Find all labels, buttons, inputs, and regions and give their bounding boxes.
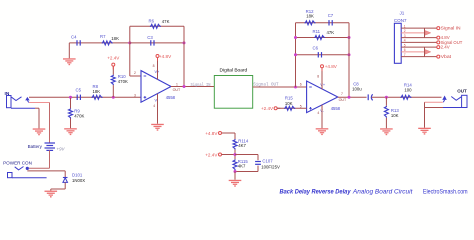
node op-amp1 output junction: [183, 85, 186, 88]
capacitor C6: [317, 52, 319, 57]
port Vbat: [437, 55, 440, 58]
wire input row: [29, 96, 141, 98]
ground input jack: [33, 128, 46, 135]
svg-text:R7: R7: [100, 34, 106, 39]
wire op-amp1 V- stub: [157, 94, 159, 124]
svg-text:1: 1: [176, 82, 178, 86]
op-amp U1B 4558: [307, 81, 341, 113]
svg-text:R6: R6: [149, 18, 155, 23]
wire C107 branch: [235, 154, 258, 156]
svg-text:2.4V: 2.4V: [441, 45, 450, 50]
ground R13: [380, 128, 393, 135]
resistor R12: [305, 21, 316, 25]
svg-text:+2.4V: +2.4V: [107, 56, 120, 61]
wire feedback right vertical: [183, 26, 185, 86]
wire op-amp2 output row: [338, 96, 367, 98]
connector J1 CON7: [394, 23, 401, 63]
svg-text:Back Delay Reverse Delay: Back Delay Reverse Delay: [280, 188, 351, 195]
svg-text:Signal OUT: Signal OUT: [253, 81, 279, 87]
wire input jack sleeve to ground: [35, 107, 39, 109]
ground power: [45, 191, 58, 198]
wire D101 to ground: [64, 182, 66, 189]
svg-text:C107: C107: [262, 159, 273, 164]
svg-text:4: 4: [153, 104, 155, 108]
wire J1 pin 1: [401, 27, 437, 29]
wire J1 pin 6: [401, 51, 424, 53]
wire feedback2 right vertical: [348, 23, 350, 98]
node feedback right junction: [183, 41, 186, 44]
node bias junction: [234, 153, 237, 156]
svg-text:1N00X: 1N00X: [72, 178, 85, 183]
svg-text:3: 3: [134, 93, 136, 97]
svg-text:D101: D101: [72, 172, 83, 177]
node op-amp2 input junction: [294, 86, 297, 89]
capacitor C4: [76, 40, 78, 45]
resistor R15: [284, 106, 295, 110]
wire op-amp1 inverting input: [130, 75, 141, 77]
wire R12-C7 row: [296, 22, 350, 24]
svg-text:Digital Board: Digital Board: [220, 68, 248, 74]
svg-text:+4.8V: +4.8V: [159, 54, 172, 59]
svg-text:R11: R11: [313, 29, 321, 34]
wire feedback left vertical: [129, 26, 131, 76]
resistor R10: [111, 75, 115, 86]
resistor R7: [102, 41, 113, 45]
svg-text:C3: C3: [147, 35, 153, 40]
resistor R9: [69, 108, 73, 118]
svg-text:Battery: Battery: [28, 144, 43, 149]
wire output jack ring: [425, 101, 443, 103]
port Signal OUT: [437, 41, 440, 44]
svg-text:+4.8V: +4.8V: [205, 131, 218, 136]
svg-text:47K: 47K: [327, 30, 335, 35]
resistor R11: [314, 36, 325, 40]
wire J1 pin 4: [401, 41, 437, 43]
wire op-amp2 V+ stub: [321, 68, 323, 89]
svg-text:+9V: +9V: [57, 146, 66, 151]
port Signal IN: [437, 27, 440, 30]
svg-text:4K7: 4K7: [238, 143, 246, 148]
wire output jack sleeve: [425, 107, 444, 109]
svg-text:18K: 18K: [306, 14, 314, 19]
svg-text:C4: C4: [71, 34, 77, 39]
ground C4: [63, 58, 76, 65]
wire J1 pin 7: [401, 56, 437, 58]
node C5-R9 junction: [69, 96, 72, 99]
svg-text:470K: 470K: [74, 113, 84, 118]
svg-text:CON7: CON7: [394, 18, 407, 23]
supply +4.8V op-amp2: [321, 68, 323, 71]
svg-text:10K: 10K: [391, 113, 399, 118]
node R13 junction: [385, 96, 388, 99]
node bias bottom junction: [234, 170, 237, 173]
supply +4.8V bias: [222, 132, 225, 134]
capacitor C8: [368, 94, 372, 100]
node feedback left junction: [128, 41, 131, 44]
resistor R6: [150, 24, 161, 28]
node C6 left: [294, 53, 297, 56]
power connector jack: [8, 167, 47, 178]
resistor R13: [384, 106, 388, 118]
battery BT1: [45, 143, 56, 150]
svg-text:8: 8: [153, 64, 155, 68]
wire bias bottom rail: [234, 170, 236, 171]
resistor R14: [400, 95, 411, 99]
svg-text:18K: 18K: [111, 36, 119, 41]
svg-text:+2.4V: +2.4V: [205, 152, 218, 157]
svg-text:100u: 100u: [352, 86, 362, 91]
svg-text:C6: C6: [313, 45, 319, 50]
wire C8 to R14: [372, 96, 442, 98]
wire C4-R7 row: [69, 42, 130, 44]
ground op-amp2: [316, 128, 329, 135]
svg-text:+2.4V: +2.4V: [261, 106, 274, 111]
ground output jack: [418, 128, 431, 135]
wire digital board output: [253, 86, 307, 88]
node R11 right: [348, 36, 351, 39]
svg-text:V+: V+: [320, 83, 326, 87]
svg-text:Signal IN: Signal IN: [191, 82, 211, 88]
resistor R115: [233, 159, 237, 170]
wire bias ground stub: [234, 172, 236, 180]
svg-text:100F/25V: 100F/25V: [261, 165, 280, 170]
supply +2.4V at R10: [112, 66, 114, 69]
svg-text:4558: 4558: [331, 106, 341, 111]
wire R15 row: [277, 107, 307, 109]
svg-text:+4.8V: +4.8V: [325, 64, 338, 69]
svg-text:10K: 10K: [285, 101, 293, 106]
input jack J_IN: [7, 96, 36, 109]
wire op-amp1 V+ stub: [157, 58, 159, 80]
wire J1 pin 3: [401, 37, 437, 39]
wire C4 to ground: [68, 43, 70, 58]
node op-amp2 output junction: [348, 96, 351, 99]
svg-text:100: 100: [404, 87, 412, 92]
svg-text:4558: 4558: [166, 95, 176, 100]
gnd arrow pin 2: [424, 28, 426, 38]
digital board block: [214, 76, 252, 109]
svg-text:47K: 47K: [162, 19, 170, 24]
svg-text:7: 7: [341, 92, 343, 96]
supply +4.8V op-amp1: [157, 58, 159, 61]
ground op-amp1: [151, 124, 164, 131]
capacitor C7: [328, 20, 330, 25]
svg-text:POWER CON: POWER CON: [3, 161, 32, 166]
wire op-amp1 output: [171, 86, 214, 88]
svg-text:4: 4: [317, 111, 319, 115]
svg-text:4K7: 4K7: [238, 164, 246, 169]
svg-text:5: 5: [300, 104, 302, 108]
ground R9: [64, 128, 77, 135]
wire power ring to D101: [27, 170, 65, 172]
svg-text:6: 6: [300, 82, 302, 86]
wire feedback2 left vertical: [295, 23, 297, 87]
wire op-amp2 V- stub: [321, 105, 323, 129]
gnd arrow pin 6: [424, 47, 426, 57]
ground bias: [229, 180, 242, 187]
capacitor C107: [255, 161, 261, 163]
svg-text:2: 2: [134, 71, 136, 75]
wire R6 row: [130, 25, 184, 27]
svg-text:C5: C5: [76, 87, 82, 92]
wire battery to power jack: [49, 150, 51, 168]
svg-text:ElectroSmash.com: ElectroSmash.com: [423, 188, 468, 195]
op-amp U1A 4558: [141, 70, 176, 102]
svg-text:Analog Board Circuit: Analog Board Circuit: [352, 188, 414, 195]
port 4.8V: [437, 36, 440, 39]
diode D101: [63, 178, 68, 183]
output jack J_OUT: [442, 95, 467, 107]
capacitor C3: [150, 40, 152, 45]
svg-text:18K: 18K: [93, 89, 101, 94]
supply +2.4V at R15: [277, 107, 280, 109]
supply +2.4V bias: [222, 154, 225, 156]
resistor R8: [92, 95, 103, 99]
svg-text:OUT: OUT: [457, 89, 467, 95]
wire bias top: [222, 132, 236, 134]
wire bias mid: [222, 154, 236, 156]
port 2.4V: [437, 46, 440, 49]
svg-text:OUT: OUT: [339, 98, 347, 102]
svg-text:OUT: OUT: [173, 88, 181, 92]
node C6 right: [348, 53, 351, 56]
svg-text:C7: C7: [328, 13, 334, 18]
svg-text:J1: J1: [400, 10, 405, 15]
wire J1 pin 2: [401, 32, 424, 34]
wire C3 row: [130, 42, 184, 44]
svg-text:Signal IN: Signal IN: [441, 26, 461, 31]
resistor R114: [233, 139, 237, 150]
svg-text:IN: IN: [5, 91, 10, 97]
wire C6 row: [296, 54, 350, 56]
svg-text:Vbat: Vbat: [441, 54, 452, 59]
svg-text:8: 8: [317, 75, 319, 79]
wire R11 row: [296, 37, 350, 39]
capacitor C5: [76, 95, 78, 100]
svg-text:470K: 470K: [118, 79, 128, 84]
wire J1 pin 5: [401, 46, 437, 48]
node R11 left: [294, 36, 297, 39]
node R10 junction: [112, 96, 115, 99]
wire input jack ring to battery: [29, 102, 50, 104]
